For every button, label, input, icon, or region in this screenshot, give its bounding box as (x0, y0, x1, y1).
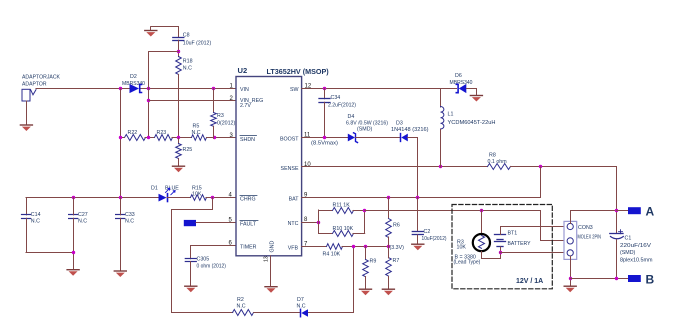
op-amp U2 IC body LT3652HV (236, 77, 302, 256)
junction R5/R3/pin3 (213, 136, 216, 139)
svg-text:N.C: N.C (183, 66, 192, 72)
connector J1 adaptor jack (22, 89, 36, 101)
svg-text:C1: C1 (625, 236, 632, 242)
svg-text:R8: R8 (489, 153, 496, 159)
junction VIN/R22 vertical (119, 87, 122, 90)
wire thermistor top (481, 210, 483, 234)
svg-text:N.C: N.C (125, 219, 134, 225)
svg-text:D2: D2 (130, 74, 137, 80)
junction VIN / R3 top (212, 87, 215, 90)
junction NTC/divider (317, 221, 320, 224)
battery block dashed box (452, 205, 552, 289)
wire jack ground stub (26, 101, 28, 124)
svg-text:R7: R7 (393, 258, 400, 264)
capacitor C33 (116, 198, 125, 271)
ground top near C8 (144, 27, 157, 37)
junction C8 / branch left (177, 50, 180, 53)
svg-text:GND: GND (270, 241, 276, 253)
capacitor C14 (22, 215, 31, 219)
schottky diode D6 (456, 84, 466, 93)
svg-text:MBRS340: MBRS340 (450, 80, 473, 86)
capacitor C34 labels (328, 95, 356, 109)
svg-text:D1: D1 (151, 186, 158, 192)
resistor R8 (488, 164, 511, 170)
inductor L1 labels (448, 112, 496, 127)
battery BT1 (495, 235, 506, 247)
svg-text:C8: C8 (183, 33, 190, 39)
resistor R25 (176, 138, 182, 165)
svg-text:R18: R18 (183, 59, 193, 65)
svg-text:13: 13 (264, 256, 270, 262)
junction BOOST/C34 (323, 136, 326, 139)
resistor R10 (319, 231, 365, 237)
svg-text:TIMER: TIMER (240, 245, 257, 251)
wire D3 to BAT line (408, 138, 418, 198)
svg-text:R4 10K: R4 10K (323, 252, 341, 258)
thermistor R3 labels (454, 240, 481, 266)
svg-text:VIN: VIN (240, 87, 249, 93)
zener diode D4 (348, 133, 358, 143)
resistor R2 labels (237, 297, 246, 310)
wire C14 bottom to gnd row (26, 218, 73, 252)
junction pin2 wire / vertical (147, 99, 150, 102)
wire NTC corner down to CON3 middle (541, 211, 567, 241)
wire SENSE row (302, 166, 488, 168)
svg-text:LT3652HV (MSOP): LT3652HV (MSOP) (267, 67, 330, 76)
capacitor C27 (69, 198, 78, 269)
svg-text:FAULT: FAULT (240, 222, 257, 228)
svg-text:SW: SW (290, 87, 299, 93)
svg-text:BATTERY: BATTERY (508, 241, 531, 247)
resistor R23 (155, 135, 173, 141)
junction SENSE/L1 (439, 165, 442, 168)
diode D4 labels (346, 114, 388, 133)
pin name VIN_REG (240, 98, 263, 109)
svg-text:0 ohm (2012): 0 ohm (2012) (197, 264, 227, 270)
junction R23/R5/R18/R25 (177, 136, 180, 139)
ground R9 (359, 289, 372, 296)
svg-text:MOLEX 2PIN: MOLEX 2PIN (578, 235, 602, 241)
svg-text:10uF (2012): 10uF (2012) (183, 40, 212, 46)
junction VFB/R6/R7 (387, 245, 390, 248)
terminal B (628, 275, 641, 282)
svg-text:R25: R25 (183, 147, 193, 153)
ground CON3 (564, 286, 577, 293)
junction battery minus (499, 251, 502, 254)
resistor R3 labels (217, 113, 235, 127)
wire B row (570, 278, 628, 280)
svg-text:ADAPTOR: ADAPTOR (22, 82, 47, 88)
terminal A (628, 207, 641, 214)
svg-text:(Lead Type): (Lead Type) (454, 260, 481, 266)
wire D4 to D3 (356, 137, 401, 139)
capacitor C8 (173, 38, 184, 41)
wire VFB row right (342, 246, 388, 248)
resistor R22 (125, 135, 146, 141)
diode D1 labels (151, 186, 179, 192)
svg-text:N.C: N.C (237, 304, 246, 310)
ground jack (20, 124, 33, 131)
pin name CHRG with overline (240, 196, 257, 203)
wire NTC divider left vertical (318, 210, 320, 234)
capacitor C34 (319, 89, 330, 138)
wire battery plus to CON3 top (501, 227, 567, 235)
svg-text:C33: C33 (125, 212, 135, 218)
resistor R2 (233, 310, 254, 316)
wire NTC divider right vertical (364, 210, 366, 234)
svg-text:10uF(2012): 10uF(2012) (422, 236, 447, 242)
diode D3 labels (391, 121, 429, 134)
diode D7 labels (297, 297, 306, 310)
ground C2 (411, 244, 424, 251)
wire C305 to ground (190, 262, 192, 286)
ground C27 (66, 269, 79, 276)
wire GND pin stub (270, 256, 272, 286)
ground R25 (172, 166, 185, 173)
svg-text:R6: R6 (393, 223, 400, 229)
svg-text:CHRG: CHRG (240, 197, 256, 203)
resistor R18 labels (183, 59, 193, 72)
wire BAT row (302, 197, 541, 199)
capacitor C1 labels (620, 236, 653, 264)
junction R11 right (363, 209, 366, 212)
svg-text:R9: R9 (370, 259, 377, 265)
svg-text:C34: C34 (331, 95, 341, 101)
pin name SHDN with overline (240, 136, 257, 144)
wire R22 left lead (120, 137, 124, 139)
svg-text:D6: D6 (455, 73, 462, 79)
ground C305 (184, 286, 197, 293)
wire NTC pin8 (302, 222, 319, 224)
capacitor C2 (412, 198, 423, 244)
resistor R18 (176, 57, 182, 75)
diode D7 (301, 309, 309, 316)
node ADAPTORJACK label (22, 75, 60, 88)
wire battery minus to CON3 bottom (500, 252, 567, 254)
capacitor C8 labels (183, 33, 212, 47)
resistor R8 labels (488, 153, 508, 166)
wire VFB pin7 to R4 (302, 246, 326, 248)
svg-text:12V / 1A: 12V / 1A (516, 278, 543, 285)
diode D3 (401, 134, 408, 142)
wire C1 bottom to B junction (616, 240, 618, 279)
svg-text:CON3: CON3 (578, 225, 593, 231)
svg-text:YCDM6045T-22uH: YCDM6045T-22uH (448, 120, 496, 126)
junction R8 / BAT branch (539, 165, 542, 168)
svg-text:SENSE: SENSE (281, 166, 299, 172)
wire top ground to C8 (151, 27, 179, 38)
junction thermistor top (480, 209, 483, 212)
svg-text:2.2uF(2012): 2.2uF(2012) (328, 103, 356, 109)
svg-text:A: A (646, 205, 655, 219)
resistor R15 (191, 195, 207, 201)
svg-text:(3.3V): (3.3V) (390, 245, 405, 251)
wire FAULT to pin5 (196, 222, 236, 224)
svg-text:R2: R2 (237, 297, 244, 303)
wire D1 to R15 (167, 197, 190, 199)
svg-text:BT1: BT1 (508, 231, 518, 237)
svg-text:C14: C14 (31, 212, 41, 218)
resistor R4 (327, 244, 343, 250)
junction VFB/R9 (364, 245, 367, 248)
wire R8 right to corner A (511, 167, 617, 234)
svg-text:(SMD): (SMD) (620, 250, 636, 256)
svg-text:1N4148 (3216): 1N4148 (3216) (391, 127, 429, 133)
wire R5 to pin3 (207, 137, 237, 139)
svg-text:SHDN: SHDN (240, 137, 255, 143)
wire VIN row (36, 88, 236, 90)
ground R7 (382, 289, 395, 296)
diode D2 MBRS340 (130, 84, 142, 93)
svg-text:C2: C2 (424, 229, 431, 235)
junction B row / C1 (615, 277, 618, 280)
svg-text:D7: D7 (297, 297, 304, 303)
svg-text:220uF/16V: 220uF/16V (620, 243, 652, 249)
connector CON3 MOLEX 2PIN (564, 221, 577, 259)
wire R15 to CHRG pin4 (206, 197, 236, 199)
LED D1 (159, 188, 176, 201)
wire D6 anode to ground (467, 89, 477, 95)
svg-text:VFB: VFB (288, 245, 299, 251)
capacitor C33 labels (125, 212, 135, 225)
wire R18 bottom to R23/R5 junction (178, 75, 180, 139)
wire CON3 bottom to B row and ground (570, 256, 572, 286)
svg-text:10K: 10K (457, 245, 467, 251)
capacitor C27 labels (78, 212, 88, 225)
wire CHRG branch down-left (172, 198, 213, 313)
ground D6 (470, 95, 483, 102)
junction BAT/R6 (387, 196, 390, 199)
wire x120 vertical VIN to CHRG row (120, 89, 122, 198)
svg-text:(8.5Vmax): (8.5Vmax) (311, 141, 338, 147)
svg-text:NTC: NTC (288, 221, 299, 227)
junction SW/C34 (323, 87, 326, 90)
connector CON3 labels (578, 225, 602, 241)
svg-text:R5: R5 (193, 124, 200, 130)
wire C8 bottom to junction (178, 40, 180, 56)
wire SW row (302, 88, 457, 90)
svg-text:ADAPTORJACK: ADAPTORJACK (22, 75, 60, 81)
resistor R6 (386, 198, 392, 247)
capacitor C14 labels (31, 212, 41, 225)
svg-text:N.C: N.C (78, 219, 87, 225)
LED indicator FAULT rect (184, 220, 196, 226)
wire branch down to BAT line (540, 167, 542, 198)
svg-text:L1: L1 (448, 112, 454, 118)
wire A row to terminal (616, 210, 628, 212)
resistor R5 (192, 135, 207, 141)
wire thermistor bottom loop (482, 252, 501, 259)
svg-text:8plex10.5mm: 8plex10.5mm (620, 257, 653, 263)
wire VIN_REG pin2 row (149, 100, 236, 102)
battery BT1 labels (508, 231, 531, 248)
resistor R15 labels (192, 186, 202, 198)
pin name FAULT with overline (240, 221, 258, 228)
wire BOOST row (302, 137, 348, 139)
diode D6 labels (450, 73, 473, 86)
ground IC GND (264, 286, 277, 293)
capacitor C1 (610, 234, 624, 239)
resistor R9 (363, 247, 369, 289)
capacitor C305 labels (197, 257, 227, 270)
junction D2 cathode / C8 branch (147, 87, 150, 90)
resistor R7 (386, 247, 392, 289)
resistor R5 labels (192, 124, 201, 137)
junction VFB/bottom branch (352, 245, 355, 248)
junction CON3/B row (569, 277, 572, 280)
svg-text:C305: C305 (197, 257, 210, 263)
wire battery minus stub (500, 247, 502, 253)
svg-text:R10 10K: R10 10K (333, 226, 354, 232)
capacitor C2 labels (422, 229, 447, 242)
diode D2 labels (122, 74, 145, 87)
junction R22 left (119, 136, 122, 139)
svg-text:(SMD): (SMD) (357, 127, 373, 133)
resistor R3 0 ohm (211, 89, 217, 139)
junction BAT/C2/D3 (416, 196, 419, 199)
capacitor C1 plus sign (619, 230, 623, 234)
svg-text:N.C: N.C (31, 219, 40, 225)
svg-text:0(2012): 0(2012) (217, 121, 235, 127)
resistor R11 (319, 208, 365, 214)
wire CHRG row left (caps to D1) (26, 198, 158, 215)
wire TIMER pin6 (191, 246, 237, 259)
wire NTC net to battery box (365, 210, 541, 212)
svg-text:2.7V: 2.7V (240, 103, 251, 109)
junction C33 top / x120 vertical (119, 196, 122, 199)
wire bottom row left (172, 312, 233, 314)
wire R2 to D7 (254, 312, 301, 314)
capacitor C305 (185, 259, 196, 262)
thermistor R3 10K (473, 234, 490, 251)
inductor L1 (441, 89, 444, 168)
svg-text:D3: D3 (396, 121, 403, 127)
junction A row (615, 209, 618, 212)
svg-text:BAT: BAT (289, 197, 300, 203)
junction R22/R23/vertical (147, 136, 150, 139)
ground C33 (114, 270, 127, 277)
svg-text:B: B (646, 272, 655, 286)
junction C27 top (72, 196, 75, 199)
svg-text:D4: D4 (348, 114, 355, 120)
wire R22-R23 (145, 137, 154, 139)
svg-text:C27: C27 (78, 212, 88, 218)
junction C14/C27 gnd row (72, 251, 75, 254)
wire CON3 top to A row (571, 211, 617, 224)
junction CHRG / bottom branch (211, 196, 214, 199)
svg-text:BOOST: BOOST (280, 137, 299, 143)
wire branch to x149 vertical (149, 52, 179, 139)
svg-text:U2: U2 (238, 66, 248, 75)
wire D7 to VFB branch (309, 247, 354, 313)
svg-text:R3: R3 (217, 113, 224, 119)
wire R23-R5 (172, 137, 192, 139)
